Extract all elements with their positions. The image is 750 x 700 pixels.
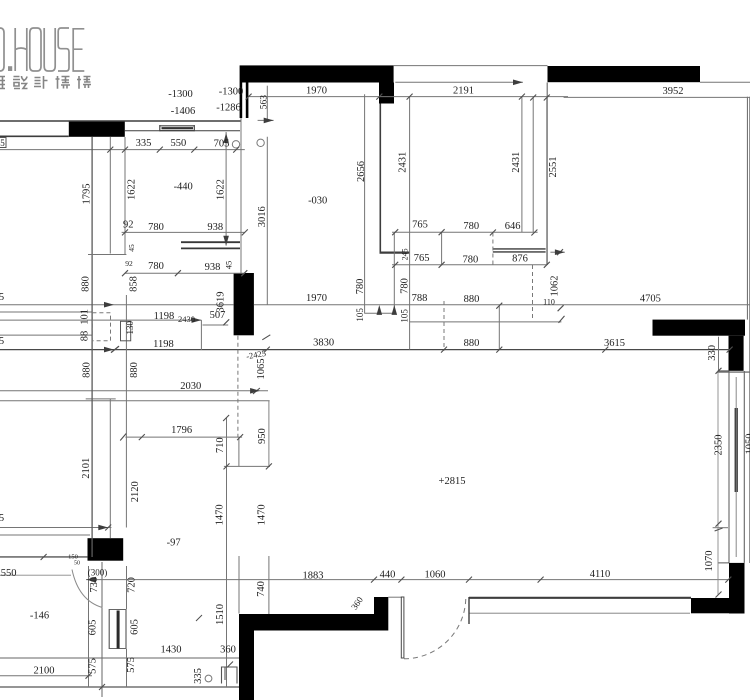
dim line 765-780-876 — [392, 264, 547, 266]
dim line 2100 — [0, 675, 92, 677]
svg-text:1430: 1430 — [161, 645, 182, 656]
dim line 1970-2191 top — [249, 96, 568, 98]
line under top walls — [395, 81, 523, 83]
door leaf bottom — [401, 597, 404, 658]
v 1622 arrow line — [225, 132, 227, 246]
door jamb vertical — [468, 597, 470, 624]
line below 2101 — [0, 534, 90, 536]
svg-text:335: 335 — [193, 668, 204, 684]
svg-text:150: 150 — [68, 554, 78, 561]
svg-text:1970: 1970 — [306, 86, 327, 97]
svg-text:45: 45 — [223, 261, 233, 270]
svg-text:575: 575 — [88, 658, 99, 674]
svg-text:880: 880 — [464, 294, 480, 305]
wall band lower line — [125, 130, 240, 132]
window left-bottom vertical — [109, 609, 126, 649]
svg-text:101: 101 — [80, 309, 91, 325]
svg-text:2030: 2030 — [180, 381, 201, 392]
svg-text:1198: 1198 — [153, 339, 174, 350]
window room2 horizontal — [181, 242, 240, 248]
svg-text:-97: -97 — [167, 537, 181, 548]
dimension texts rotated — [80, 95, 750, 684]
dim line 1198 — [0, 319, 201, 321]
short line 110 arrow — [550, 251, 564, 253]
svg-text:110: 110 — [543, 298, 555, 307]
v 1795 col — [91, 137, 93, 557]
svg-text:780: 780 — [148, 222, 164, 233]
svg-text:938: 938 — [207, 222, 223, 233]
v 2431 left — [409, 96, 411, 349]
small door frame symbol — [222, 667, 238, 684]
wall edge gray below double line — [240, 118, 242, 273]
dim line 335-550-705 — [0, 149, 245, 151]
wall right vertical upper — [729, 336, 744, 371]
bracket 130 — [121, 321, 131, 341]
logo text O.HOUSE stencil — [0, 28, 84, 71]
svg-text:2430: 2430 — [178, 314, 195, 324]
svg-text:92: 92 — [123, 220, 134, 231]
svg-text:2431: 2431 — [511, 152, 522, 173]
svg-text:780: 780 — [355, 279, 366, 295]
svg-text:880: 880 — [82, 362, 93, 378]
wall band top-left top line — [0, 120, 241, 122]
svg-text:3016: 3016 — [257, 206, 268, 227]
v 2656 col — [364, 94, 366, 313]
svg-text:780: 780 — [399, 278, 410, 294]
svg-text:730: 730 — [89, 577, 100, 593]
svg-text:605: 605 — [130, 619, 141, 635]
thin dimension lines vertical — [88, 86, 719, 687]
v 1470 col — [226, 418, 228, 687]
line below 2030 — [0, 400, 270, 402]
v between 765 780 — [441, 232, 443, 265]
svg-text:1060: 1060 — [425, 570, 446, 581]
dashed door arc bottom — [404, 597, 466, 659]
svg-text:5: 5 — [0, 292, 4, 303]
svg-text:2101: 2101 — [81, 458, 92, 479]
dim line 1796 — [125, 436, 242, 438]
svg-text:3619: 3619 — [216, 292, 227, 313]
dashed opening — [492, 233, 494, 267]
v inner left — [109, 137, 111, 254]
top-center room right wall line — [546, 83, 548, 266]
wall stub horizontal — [380, 252, 410, 254]
left room wall line — [0, 556, 87, 558]
v 330 dim — [718, 337, 720, 372]
svg-text:1510: 1510 — [215, 604, 226, 625]
dim line 765-780-646 — [392, 231, 538, 233]
svg-text:5: 5 — [0, 513, 4, 524]
svg-text:3615: 3615 — [604, 338, 625, 349]
svg-text:2550: 2550 — [0, 568, 17, 579]
dim line 2101 bottom — [0, 527, 111, 529]
v 740 col — [238, 556, 240, 614]
windows — [109, 125, 744, 649]
svg-text:1796: 1796 — [171, 425, 192, 436]
svg-text:1065: 1065 — [256, 359, 267, 380]
svg-text:-030: -030 — [308, 196, 327, 207]
bottom room wall line — [469, 597, 691, 599]
svg-text:130: 130 — [125, 320, 135, 334]
svg-text:876: 876 — [512, 254, 528, 265]
v 2431 right — [521, 96, 523, 232]
dashed box left — [92, 313, 110, 341]
svg-text:705: 705 — [214, 139, 230, 150]
bottom left room line — [0, 657, 239, 659]
svg-text:1062: 1062 — [550, 276, 561, 297]
dimension ticks — [41, 94, 733, 690]
svg-text:-1406: -1406 — [171, 106, 196, 117]
v 1510-360 col — [268, 401, 270, 467]
wall bottom vertical — [239, 631, 254, 700]
svg-text:2551: 2551 — [548, 157, 559, 178]
window room3 horizontal — [493, 249, 546, 252]
svg-text:880: 880 — [129, 362, 140, 378]
svg-text:360: 360 — [220, 645, 236, 656]
svg-text:740: 740 — [256, 581, 267, 597]
wall top-left block — [69, 121, 125, 137]
long line 1970-788-880-4705 — [0, 304, 750, 306]
wall edge double line left — [240, 83, 243, 119]
wall right horizontal — [653, 320, 746, 336]
dashed v center — [443, 301, 445, 351]
svg-text:1622: 1622 — [127, 179, 138, 200]
bottom room wall inner line — [469, 612, 690, 614]
wall bottom-right corner — [691, 598, 745, 613]
door head line — [388, 596, 402, 598]
svg-text:575: 575 — [126, 657, 137, 673]
svg-text:550: 550 — [171, 138, 187, 149]
svg-text:50: 50 — [74, 561, 80, 567]
v 1198 end — [200, 320, 202, 350]
svg-text:938: 938 — [205, 262, 221, 273]
v 880 col — [498, 306, 500, 350]
wall corner stub — [379, 83, 394, 104]
svg-text:780: 780 — [463, 221, 479, 232]
line 788 to 880 — [409, 321, 561, 323]
svg-text:330: 330 — [707, 345, 718, 361]
svg-text:1070: 1070 — [704, 551, 715, 572]
svg-text:2431: 2431 — [397, 152, 408, 173]
svg-text:2350: 2350 — [713, 435, 724, 456]
dim line 780-938 — [122, 231, 245, 233]
wall band top-left bottom line — [0, 135, 69, 137]
wall left-mid block — [88, 538, 124, 561]
dim line 1883-440-1060-4110 — [86, 579, 729, 581]
wall edge left of top-center room — [379, 104, 381, 253]
svg-text:45: 45 — [127, 244, 136, 252]
dashed v left-center — [237, 336, 239, 437]
wall bottom horizontal — [239, 614, 388, 631]
svg-text:1883: 1883 — [303, 571, 324, 582]
door arc bottom-left — [72, 570, 102, 608]
right short line — [713, 527, 728, 529]
circle symbol 2 — [257, 139, 264, 146]
svg-text:+2815: +2815 — [439, 476, 466, 487]
svg-text:5: 5 — [0, 336, 4, 347]
svg-text:1470: 1470 — [215, 504, 226, 525]
svg-text:88: 88 — [80, 331, 91, 342]
svg-text:-1300: -1300 — [168, 89, 193, 100]
window top-left — [160, 125, 195, 131]
wall top-center — [240, 65, 394, 82]
svg-text:-440: -440 — [174, 182, 193, 193]
svg-text:105: 105 — [399, 309, 409, 323]
v 3016 line — [266, 86, 268, 121]
svg-text:105: 105 — [355, 308, 365, 322]
svg-text:335: 335 — [136, 138, 152, 149]
svg-text:(300): (300) — [88, 568, 108, 578]
svg-text:765: 765 — [412, 220, 428, 231]
v 335 tick col — [124, 137, 126, 255]
svg-text:563: 563 — [260, 95, 270, 110]
svg-text:2100: 2100 — [34, 666, 55, 677]
dim pointer 563 — [258, 119, 274, 121]
svg-text:2656: 2656 — [356, 161, 367, 182]
v 646 col — [532, 98, 534, 233]
dimension texts horizontal — [0, 86, 684, 677]
dimension arrows — [86, 80, 565, 583]
svg-text:858: 858 — [129, 276, 140, 292]
svg-text:880: 880 — [81, 276, 92, 292]
svg-text:720: 720 — [127, 577, 138, 593]
bottom outer line — [0, 686, 239, 688]
svg-text:1470: 1470 — [256, 504, 267, 525]
svg-text:1622: 1622 — [215, 179, 226, 200]
left lines 101-88 — [0, 311, 92, 313]
right lower outer line — [717, 371, 750, 373]
dim line 3952 — [564, 96, 750, 98]
svg-text:605: 605 — [88, 620, 99, 636]
right edge outline lines — [747, 97, 749, 563]
svg-text:360: 360 — [349, 594, 365, 611]
svg-text:646: 646 — [505, 221, 521, 232]
svg-text:-1300: -1300 — [219, 87, 244, 98]
short line between 105s — [364, 312, 396, 314]
svg-text:245: 245 — [401, 248, 410, 260]
svg-text:765: 765 — [414, 253, 430, 264]
svg-text:2191: 2191 — [453, 86, 474, 97]
svg-text:780: 780 — [148, 261, 164, 272]
v col A bottom — [88, 566, 90, 687]
svg-text:780: 780 — [463, 254, 479, 265]
window right vertical — [718, 371, 745, 563]
svg-text:788: 788 — [412, 293, 428, 304]
main dim line 3830-880-3615 — [0, 349, 730, 351]
left room upper line — [0, 574, 71, 576]
v col B — [125, 295, 127, 528]
dashed lines — [92, 233, 532, 659]
short line 2430 — [203, 324, 229, 326]
svg-text:3952: 3952 — [663, 86, 684, 97]
svg-text:3830: 3830 — [313, 337, 334, 348]
circle symbol 1 — [232, 141, 239, 148]
vertical col left of bottom block — [101, 562, 103, 697]
svg-text:5: 5 — [0, 138, 5, 148]
svg-text:4705: 4705 — [640, 294, 661, 305]
svg-text:1970: 1970 — [306, 293, 327, 304]
svg-text:2120: 2120 — [130, 481, 141, 502]
svg-text:-146: -146 — [30, 611, 49, 622]
dim line 780-938 lower — [125, 272, 245, 274]
wall mid-left pillar — [234, 273, 254, 335]
svg-text:1795: 1795 — [82, 184, 93, 205]
dim line 2030 — [0, 390, 268, 392]
logo watermark — [0, 28, 91, 89]
v right of stub — [393, 232, 395, 313]
logo CJK row — [0, 76, 91, 89]
svg-text:880: 880 — [464, 338, 480, 349]
dashed door top-center — [532, 265, 534, 320]
svg-text:1198: 1198 — [154, 311, 175, 322]
v 876 right — [546, 98, 548, 266]
v 950 col solid part — [238, 437, 240, 466]
circle symbol 3 — [205, 675, 212, 682]
svg-text:-1286: -1286 — [216, 103, 241, 114]
svg-text:950: 950 — [257, 428, 268, 444]
wall top-right — [548, 66, 701, 82]
wall bottom stub up — [374, 597, 388, 614]
svg-text:710: 710 — [215, 437, 226, 453]
dim line 710-950 bottom — [224, 465, 270, 467]
svg-text:1050: 1050 — [745, 434, 750, 455]
svg-text:440: 440 — [380, 570, 396, 581]
svg-text:4110: 4110 — [590, 569, 611, 580]
svg-text:92: 92 — [125, 259, 133, 268]
wall bottom-right vertical — [729, 563, 745, 614]
v right col long — [717, 372, 719, 594]
